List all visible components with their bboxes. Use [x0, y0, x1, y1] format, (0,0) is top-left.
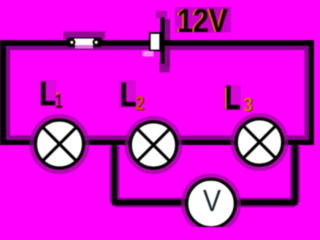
svg-text:2: 2 — [135, 93, 144, 115]
battery short plate (white, negative) — [150, 33, 160, 51]
switch S1 housing shadow — [64, 32, 106, 40]
switch lever glow below — [75, 45, 93, 49]
wire: battery to right edge — [164, 40, 314, 46]
svg-text:1: 1 — [55, 91, 63, 113]
voltmeter V1 — [187, 179, 236, 228]
switch terminal left — [69, 40, 74, 45]
label L3 orange edge stripe — [225, 88, 227, 110]
wire: top loop, x0 to switch — [0, 40, 68, 46]
wire: voltmeter right riser — [292, 143, 298, 206]
switch terminal right — [94, 40, 99, 45]
wire halos (jpeg-like purple glow) — [0, 40, 314, 203]
svg-text:L: L — [120, 76, 136, 113]
wire: left vertical — [0, 41, 6, 146]
wire: bottom horizontal (voltmeter branch) — [112, 200, 297, 206]
battery shadow right of long plate — [165, 19, 171, 67]
wire: right vertical (outer) — [309, 41, 314, 146]
battery glow below short plate — [143, 51, 154, 57]
lamp L1 — [36, 120, 84, 168]
svg-text:12V: 12V — [177, 2, 228, 39]
voltmeter halo — [185, 178, 237, 230]
12V label box — [175, 7, 231, 33]
battery long plate (positive) — [160, 18, 164, 64]
wire: switch to battery — [101, 40, 151, 46]
svg-text:L: L — [40, 75, 56, 112]
switch S1 lever (closed, white) — [74, 39, 94, 46]
lamp L3 halo — [235, 117, 285, 167]
battery shadow above long plate — [156, 11, 167, 18]
svg-text:V: V — [203, 183, 221, 218]
lamp L2 — [130, 122, 176, 168]
lamp L2 halo — [129, 120, 179, 170]
svg-text:3: 3 — [244, 95, 253, 117]
wire: lamp row horizontal — [0, 140, 314, 145]
label L2 halo — [119, 80, 136, 108]
label L1 halo — [40, 80, 56, 106]
switch S1 base bar — [66, 38, 103, 48]
label L3 halo — [224, 85, 241, 111]
wire: voltmeter left riser — [112, 143, 117, 206]
svg-text:L: L — [225, 79, 240, 116]
lamp L1 halo — [34, 118, 86, 170]
lamp L3 — [236, 119, 282, 165]
